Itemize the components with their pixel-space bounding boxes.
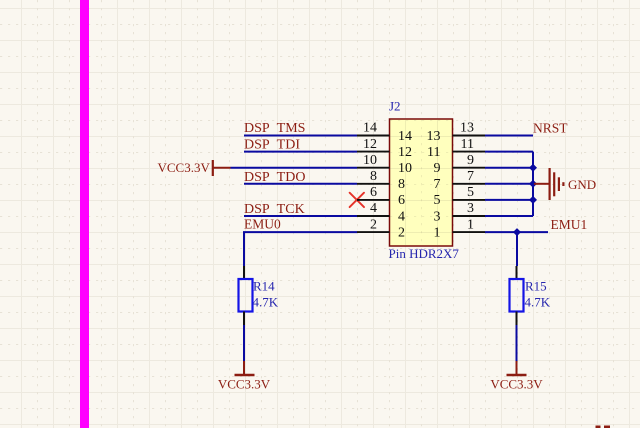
svg-text:5: 5	[467, 185, 474, 200]
svg-text:4.7K: 4.7K	[525, 295, 551, 310]
wire DSP_TDI to pin 12	[244, 151, 357, 153]
svg-text:Pin HDR2X7: Pin HDR2X7	[389, 246, 460, 261]
svg-text:8: 8	[398, 177, 405, 192]
svg-text:3: 3	[467, 201, 474, 216]
svg-text:EMU1: EMU1	[551, 217, 588, 232]
svg-text:11: 11	[427, 145, 440, 160]
pin 11	[427, 137, 485, 160]
svg-text:8: 8	[370, 169, 377, 184]
junction pin5/bus	[529, 196, 537, 204]
svg-text:VCC3.3V: VCC3.3V	[218, 377, 271, 392]
svg-text:9: 9	[467, 153, 474, 168]
svg-text:7: 7	[467, 169, 474, 184]
wire pin 7 to GND bus	[485, 183, 533, 185]
svg-text:5: 5	[434, 193, 441, 208]
svg-text:EMU0: EMU0	[244, 216, 281, 231]
junction pin9/bus	[529, 164, 537, 172]
wire DSP_TMS to pin 14	[244, 135, 357, 137]
svg-text:13: 13	[460, 121, 474, 136]
svg-text:R15: R15	[525, 279, 547, 294]
sheet partition magenta line (frame)	[80, 0, 89, 428]
J2 designator	[389, 99, 401, 114]
wire pin 11 to GND bus	[485, 151, 533, 153]
pin 1	[434, 217, 486, 240]
pin 7	[434, 169, 486, 192]
svg-text:14: 14	[398, 129, 412, 144]
svg-text:GND: GND	[568, 177, 596, 192]
net label DSP_TMS	[244, 121, 305, 136]
pin 12	[357, 137, 412, 160]
svg-text:DSP TDO: DSP TDO	[244, 170, 305, 185]
wire R15 to VCC3.3V	[516, 325, 518, 361]
pin 8	[357, 169, 405, 192]
wire pin 13 to NRST	[485, 135, 533, 137]
wire pin 5 to GND bus	[485, 199, 533, 201]
svg-text:6: 6	[398, 193, 405, 208]
GND bus vertical wire	[532, 152, 534, 216]
no-connect X on pin 6	[350, 193, 364, 207]
net label NRST	[533, 121, 568, 136]
clipped text at bottom edge (decorative)	[596, 426, 611, 428]
power port VCC3.3V (left, feeds pin 10)	[158, 160, 231, 176]
net label DSP_TDO	[244, 170, 305, 185]
svg-text:VCC3.3V: VCC3.3V	[158, 160, 211, 175]
svg-text:10: 10	[398, 161, 412, 176]
svg-text:11: 11	[461, 137, 474, 152]
R14 value 4.7K	[253, 295, 279, 310]
svg-text:12: 12	[363, 137, 377, 152]
wire DSP_TCK to pin 4	[244, 215, 357, 217]
wire pin 9 to GND bus	[485, 167, 533, 169]
net label EMU1	[551, 217, 588, 232]
wire pin 3 to GND bus	[485, 215, 533, 217]
pin 6	[357, 185, 405, 208]
junction pin7/bus	[529, 180, 537, 188]
net label DSP_TCK	[244, 202, 305, 217]
R15 value 4.7K	[525, 295, 551, 310]
svg-text:2: 2	[398, 225, 405, 240]
wire pin 1 to EMU1	[485, 231, 548, 233]
R15 designator	[525, 279, 547, 294]
svg-text:6: 6	[370, 185, 377, 200]
svg-text:4.7K: 4.7K	[253, 295, 279, 310]
pin 5	[434, 185, 486, 208]
wire R14 to VCC3.3V	[243, 325, 245, 361]
pin 9	[434, 153, 486, 176]
svg-text:NRST: NRST	[533, 121, 568, 136]
pin 14	[357, 121, 412, 144]
power port VCC3.3V (below R14)	[218, 361, 271, 392]
svg-text:DSP TDI: DSP TDI	[244, 138, 300, 153]
power port GND	[534, 168, 596, 200]
pin 10	[357, 153, 412, 176]
svg-text:10: 10	[363, 153, 377, 168]
pin 2	[357, 217, 405, 240]
resistor R15	[510, 266, 524, 325]
svg-text:R14: R14	[253, 279, 275, 294]
svg-text:4: 4	[398, 209, 405, 224]
connector J2 body	[390, 119, 453, 246]
wire VCC3.3V to pin 10	[231, 167, 358, 169]
net label EMU0	[244, 216, 281, 231]
wire EMU1 down to R15	[516, 232, 518, 266]
R14 designator	[253, 279, 275, 294]
svg-text:9: 9	[434, 161, 441, 176]
net label DSP_TDI	[244, 138, 300, 153]
svg-text:1: 1	[434, 225, 441, 240]
svg-text:4: 4	[370, 201, 377, 216]
J2 comment: Pin HDR2X7	[389, 246, 460, 261]
wire DSP_TDO to pin 8	[244, 183, 357, 185]
wire EMU0 to pin 2 and down to R14	[244, 232, 357, 266]
svg-text:7: 7	[434, 177, 441, 192]
svg-text:J2: J2	[389, 99, 401, 114]
pin 3	[434, 201, 486, 224]
svg-text:14: 14	[363, 121, 377, 136]
svg-text:12: 12	[398, 145, 412, 160]
junction EMU1/R15	[513, 228, 521, 236]
svg-text:VCC3.3V: VCC3.3V	[490, 377, 543, 392]
svg-text:13: 13	[427, 129, 441, 144]
svg-text:2: 2	[370, 217, 377, 232]
pin 13	[427, 121, 486, 144]
svg-text:1: 1	[467, 217, 474, 232]
resistor R14	[239, 266, 253, 325]
svg-text:3: 3	[434, 209, 441, 224]
svg-text:DSP TMS: DSP TMS	[244, 121, 305, 136]
pin 4	[357, 201, 405, 224]
power port VCC3.3V (below R15)	[490, 361, 543, 392]
svg-text:DSP TCK: DSP TCK	[244, 202, 305, 217]
